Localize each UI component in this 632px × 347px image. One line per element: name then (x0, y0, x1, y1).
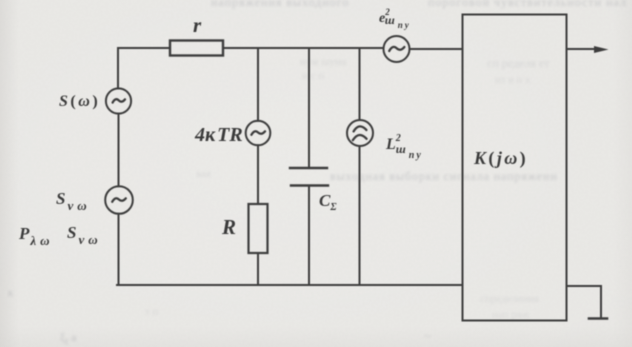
svg-text:K(jω): K(jω) (473, 148, 528, 169)
svg-text:Sνω: Sνω (67, 223, 102, 247)
svg-text:CΣ: CΣ (319, 191, 337, 213)
svg-text:r: r (193, 13, 202, 37)
svg-text:S(ω): S(ω) (59, 93, 100, 110)
svg-text:Pλω: Pλω (18, 224, 54, 248)
svg-text:L2шпу: L2шпу (385, 133, 423, 161)
svg-text:R: R (221, 215, 236, 239)
svg-text:4кTR: 4кTR (194, 124, 243, 146)
svg-text:e2шпу: e2шпу (379, 7, 411, 30)
svg-text:Sνω: Sνω (56, 189, 91, 213)
